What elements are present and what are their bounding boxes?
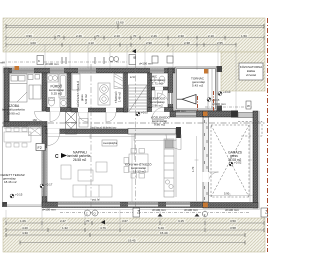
- window/door to terrace (west of nappali): [42, 148, 46, 196]
- garage north wall: [203, 111, 233, 117]
- svg-text:1.50: 1.50: [241, 34, 247, 38]
- red boundary dashed lines: [198, 18, 268, 252]
- svg-text:proj. fal: proj. fal: [92, 199, 100, 202]
- svg-text:2.47: 2.47: [60, 219, 66, 223]
- site hatch bottom band: [3, 218, 265, 252]
- terrace outline: [3, 127, 45, 207]
- svg-text:mm: mm: [0, 61, 5, 65]
- svg-text:70: 70: [96, 34, 100, 38]
- bottom dimension chain lines: [6, 223, 264, 243]
- extension lines bottom: [6, 208, 264, 231]
- svg-text:70: 70: [57, 34, 61, 38]
- svg-text:+0.02: +0.02: [234, 161, 242, 165]
- svg-text:4.00: 4.00: [30, 41, 36, 45]
- drain annotation right (porch): [172, 101, 253, 113]
- kitchen east / garage west wall (light partition): [203, 117, 209, 202]
- svg-text:d=100 mm: d=100 mm: [139, 62, 153, 66]
- svg-text:5.42 m2: 5.42 m2: [84, 94, 88, 104]
- top dimension ticks: [6, 24, 264, 47]
- garage corner post: [231, 111, 238, 118]
- section line vertical x91: [90, 64, 92, 210]
- site hatch right block: [221, 52, 265, 91]
- svg-text:70: 70: [133, 34, 137, 38]
- svg-text:+0.17: +0.17: [141, 111, 149, 115]
- gépészet appliances: [72, 74, 110, 105]
- svg-text:3.67: 3.67: [122, 219, 128, 223]
- tároló shelves hatch: [114, 74, 123, 89]
- terrace furniture: [4, 128, 31, 148]
- svg-text:160: 160: [33, 118, 38, 122]
- svg-text:d=100 mm: d=100 mm: [45, 62, 59, 66]
- svg-text:5.90: 5.90: [224, 192, 230, 196]
- windows south: [58, 203, 120, 208]
- svg-text:15.12 m2: 15.12 m2: [133, 170, 146, 174]
- cserépkályha (stove): [102, 140, 117, 146]
- svg-text:15.40: 15.40: [160, 231, 168, 235]
- drain annotations bottom: [42, 208, 250, 217]
- north exterior wall: [4, 68, 175, 73]
- szoba right wall: [42, 73, 47, 111]
- nappali top wall: [46, 129, 128, 134]
- svg-text:W: W: [247, 104, 250, 108]
- svg-text:d=100 mm: d=100 mm: [42, 208, 56, 212]
- svg-text:2.38: 2.38: [184, 41, 190, 45]
- svg-text:d=100 mm: d=100 mm: [225, 208, 239, 212]
- west exterior wall: [4, 68, 9, 127]
- szélfogó bottom wall: [148, 108, 174, 112]
- svg-text:3.90: 3.90: [26, 34, 32, 38]
- svg-text:C: C: [55, 154, 59, 160]
- wc left wall: [148, 73, 152, 111]
- svg-text:5.25 m2: 5.25 m2: [51, 92, 62, 96]
- section circles bottom: [85, 210, 99, 216]
- svg-text:3.15: 3.15: [178, 219, 184, 223]
- attic ladder: [129, 85, 148, 112]
- extension lines top: [6, 28, 264, 112]
- svg-text:4.30: 4.30: [22, 231, 28, 235]
- svg-text:F2: F2: [137, 210, 141, 214]
- dining table: [124, 149, 148, 179]
- szoba bottom wall: [4, 122, 47, 127]
- benchmarks: [10, 90, 242, 198]
- porch steps: [208, 69, 212, 110]
- svg-text:vízvétel: vízvétel: [246, 73, 257, 77]
- section line vertical x135.5: [135, 64, 137, 208]
- wc/szélfogó divider: [152, 87, 171, 90]
- svg-text:d=100 mm: d=100 mm: [184, 208, 198, 212]
- svg-text:3.50: 3.50: [230, 219, 236, 223]
- svg-text:le 9×: le 9×: [130, 76, 136, 79]
- nappali west wall: [42, 127, 47, 208]
- svg-text:70: 70: [86, 219, 90, 223]
- south exterior wall main wing: [42, 202, 205, 208]
- garage door (thin): [238, 113, 256, 118]
- kitchen top wall (light partition): [128, 129, 176, 135]
- wc fixtures: [152, 76, 165, 84]
- svg-text:+0.10: +0.10: [223, 90, 231, 94]
- east wall north wing: [168, 68, 173, 111]
- svg-text:3.58: 3.58: [230, 226, 236, 230]
- svg-text:K: K: [38, 59, 40, 63]
- svg-text:4.76: 4.76: [100, 226, 106, 230]
- window gépészet (north): [78, 68, 96, 72]
- F2 box in nappali: [36, 144, 45, 151]
- svg-text:2.10: 2.10: [114, 34, 120, 38]
- site hatch top band: [3, 18, 265, 52]
- drain line annotations top: [0, 49, 173, 66]
- garage door swing dashed: [211, 122, 262, 198]
- g circle right: [202, 211, 207, 216]
- svg-text:2.10: 2.10: [208, 34, 214, 38]
- svg-text:1.06: 1.06: [20, 219, 26, 223]
- door kitchen->garage: [203, 172, 209, 182]
- svg-text:2.96 m2: 2.96 m2: [152, 104, 163, 108]
- svg-text:26.58 m2: 26.58 m2: [73, 158, 87, 162]
- gépészet bottom wall: [71, 108, 128, 112]
- garage south wall: [203, 203, 258, 209]
- svg-text:2.90: 2.90: [146, 41, 152, 45]
- svg-text:1.32: 1.32: [62, 226, 68, 230]
- fürdő fixtures: [47, 74, 67, 107]
- svg-text:4.10: 4.10: [88, 41, 94, 45]
- svg-text:2.55: 2.55: [217, 41, 223, 45]
- svg-text:1.48 m2: 1.48 m2: [118, 91, 122, 102]
- orange lintel marks: [15, 66, 20, 70]
- section line C horizontal: [2, 122, 266, 124]
- svg-text:F2: F2: [38, 146, 42, 150]
- svg-text:19.90 m2: 19.90 m2: [7, 111, 20, 115]
- entry arrow: [182, 95, 196, 105]
- svg-text:9.86 m2: 9.86 m2: [154, 123, 165, 127]
- kitchen north wall: [170, 111, 203, 117]
- svg-text:Lásd lépcső kiültetési terv: Lásd lépcső kiültetési terv: [90, 126, 117, 129]
- entry door in east wall: [168, 93, 172, 104]
- svg-text:+0.15: +0.15: [15, 193, 23, 197]
- svg-text:gress: gress: [80, 94, 84, 101]
- terrace corner post: [2, 202, 7, 207]
- svg-text:6.10: 6.10: [158, 226, 164, 230]
- svg-text:+0.17: +0.17: [45, 183, 53, 187]
- svg-text:18.46 m2: 18.46 m2: [4, 180, 17, 184]
- svg-text:2.46: 2.46: [76, 34, 82, 38]
- bed in szoba: [10, 74, 42, 102]
- note box right: [239, 63, 263, 80]
- gépészet right wall: [124, 73, 128, 112]
- garage east wall: [253, 111, 258, 208]
- kitchen counter: [164, 139, 176, 197]
- nappali furniture: armchairs, sofa, table: [61, 162, 112, 197]
- svg-text:1.71 m2: 1.71 m2: [152, 82, 163, 86]
- svg-text:13.60: 13.60: [116, 20, 124, 24]
- door arcs: [35, 93, 219, 182]
- svg-text:19.45: 19.45: [128, 239, 136, 243]
- svg-text:C: C: [86, 211, 88, 215]
- svg-text:2.30: 2.30: [178, 34, 184, 38]
- outer insulation contour: [3, 67, 260, 210]
- svg-text:4.20: 4.20: [22, 226, 28, 230]
- window szoba (north): [12, 68, 34, 72]
- interior dim chains: [47, 122, 253, 202]
- bath bottom wall: [46, 108, 71, 112]
- chimney shaft 2 cells: [66, 112, 77, 135]
- corridor cabinet: [79, 119, 88, 128]
- room labels: [2, 104, 25, 115]
- svg-text:d=100 mm: d=100 mm: [152, 208, 166, 212]
- svg-text:5.43 m2: 5.43 m2: [192, 84, 203, 88]
- fürdő right wall: [67, 73, 71, 108]
- svg-text:2.46: 2.46: [151, 34, 157, 38]
- svg-text:d=100 mm: d=100 mm: [172, 109, 186, 113]
- section boxes bottom: [133, 208, 140, 217]
- svg-text:1.70: 1.70: [191, 166, 195, 172]
- window wc (north): [150, 68, 164, 72]
- roof beam X terrace: [29, 126, 42, 136]
- top dimension chain lines: [6, 26, 264, 45]
- top dimension numbers: [25, 20, 248, 45]
- porch outline: [175, 67, 217, 111]
- svg-text:d=100 mm: d=100 mm: [212, 102, 226, 106]
- svg-text:cserépkályha: cserépkályha: [103, 142, 118, 145]
- window fürdő (north): [50, 68, 64, 72]
